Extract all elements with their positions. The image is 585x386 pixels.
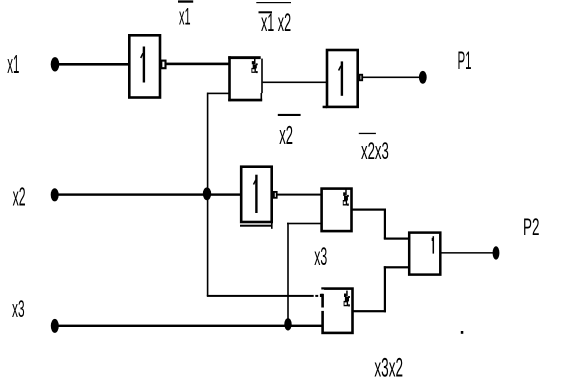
label overline x2 bar (x2bar x3) [359, 133, 376, 134]
OR gate D7 body [409, 233, 440, 275]
svg-text:x3: x3 [12, 296, 25, 323]
wire OR gate bottom input [384, 266, 409, 268]
inverter D4 label 1 [254, 175, 257, 213]
svg-text:P2: P2 [523, 214, 539, 241]
junction x3 branch dot [284, 318, 291, 330]
wire AND D5 output vertical down [384, 209, 386, 239]
inverter D4 doubled bottom bar [240, 225, 272, 227]
wire D1 bubble to AND gate D2 [166, 63, 230, 66]
svg-text:x3: x3 [314, 243, 327, 271]
wire AND D5 lower input (x3 branch) [287, 223, 321, 225]
svg-text:P1: P1 [458, 47, 472, 75]
wire AND D2 output to inverter D3 [263, 82, 327, 84]
wire OR gate top input [384, 238, 409, 240]
wire x2 branch horizontal to AND D6 [207, 295, 314, 297]
AND gate D5 ampersand [343, 189, 349, 205]
wire OR D7 output to P2 terminal [441, 252, 493, 254]
wire vertical x2 branch down to junction [207, 93, 209, 296]
AND gate D6 left edge gap artifact upper [321, 290, 324, 294]
label overline over x1 short bar [259, 11, 273, 13]
AND gate D6 left edge gap artifact lower [321, 308, 324, 311]
inverter D3 label 1 [339, 61, 342, 95]
wire x2 input to inverter D4 [55, 193, 241, 195]
AND gate D2 ampersand [251, 58, 257, 73]
AND gate D2 body top edge [228, 56, 261, 59]
stray period mark [461, 331, 464, 334]
svg-text:x1 x2: x1 x2 [261, 10, 291, 38]
wire vertical x3 branch to junction [287, 223, 289, 325]
svg-text:x2: x2 [279, 121, 293, 150]
node x3 input terminal dot [51, 319, 59, 333]
wire AND D5 output horizontal [353, 209, 386, 211]
AND gate D6 body [323, 289, 353, 333]
svg-text:x2x3: x2x3 [361, 138, 389, 165]
node P1 terminal dot [419, 71, 427, 84]
label overline (x1bar x2) long bar [256, 2, 291, 3]
wire AND D2 lower input (x2 branch) [207, 93, 230, 95]
wire x2 branch dash artifact [315, 295, 318, 297]
inverter D1 output bubble [161, 61, 165, 69]
wire x1 input to NOT gate D1 [55, 63, 130, 66]
svg-text:x1: x1 [7, 51, 19, 80]
AND gate D5 body [322, 189, 352, 232]
svg-text:x2: x2 [13, 184, 26, 212]
inverter D4 body (x2) [241, 167, 272, 222]
node P2 terminal dot [493, 246, 500, 259]
AND gate D2 body bottom edge [228, 99, 262, 102]
inverter D1 (x1) body [129, 35, 160, 97]
inverter D4 output bubble [274, 192, 277, 198]
node x1 input terminal dot [51, 57, 60, 71]
wire x3 input to AND gate D6 [55, 325, 322, 327]
inverter D4 right edge extension [271, 223, 273, 229]
wire D3 to P1 terminal [363, 77, 424, 79]
OR gate D7 label 1 [432, 236, 434, 253]
label overline x1 bar [178, 0, 193, 2]
svg-text:x1: x1 [179, 2, 191, 29]
inverter D3 output bubble [360, 75, 363, 81]
AND gate D6 ampersand [344, 291, 350, 307]
wire D4 bubble to AND gate D5 [277, 194, 321, 196]
AND gate D2 body right edge upper [261, 59, 263, 94]
AND gate D2 body left edge [228, 56, 231, 101]
junction x2 branch dot [203, 187, 211, 200]
svg-text:x3x2: x3x2 [374, 354, 403, 383]
AND gate D2 body right edge lower [261, 93, 263, 100]
inverter D3 bottom-left bar artifact [323, 106, 328, 109]
OR gate D7 label 1 flag [432, 238, 434, 241]
label overline x2 bar [278, 114, 301, 116]
inverter D1 label 1 [141, 47, 144, 83]
wire AND D6 output horizontal [354, 310, 387, 312]
AND gate D6 input junction blob [320, 294, 323, 297]
inverter D3 body (output P1 stage) [327, 50, 358, 107]
node x2 input terminal dot [51, 188, 59, 201]
wire AND D6 output vertical up [384, 266, 386, 312]
